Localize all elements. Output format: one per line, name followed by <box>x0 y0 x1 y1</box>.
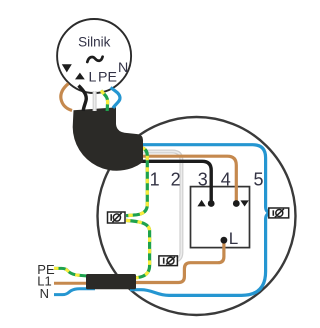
supply cable sheath <box>86 274 136 289</box>
motor wire black <box>79 86 87 112</box>
svg-text:N: N <box>40 286 49 301</box>
conduit elbow <box>73 107 143 170</box>
svg-text:1: 1 <box>150 170 160 190</box>
wire L1 supply stub <box>54 282 95 285</box>
switch arrow up <box>197 200 205 207</box>
switch terminal dot 4 <box>233 200 240 207</box>
motor wire PE green-yellow <box>101 91 108 112</box>
connector (end cap) gray bottom <box>159 256 178 266</box>
wire 4 brown (to switch terminal 4) <box>140 156 236 203</box>
connector (splice) N right <box>269 208 289 218</box>
switch terminal dot L <box>221 237 228 244</box>
wire 2 gray (unused, to end cap) <box>140 152 181 261</box>
motor circle M1 <box>57 19 131 93</box>
svg-text:2: 2 <box>171 170 181 190</box>
junction box circle <box>98 117 296 315</box>
svg-text:3: 3 <box>198 170 208 190</box>
wire PE green-yellow (motor PE down to connector) <box>126 147 147 215</box>
motor wire brown <box>61 84 72 111</box>
motor arrow up <box>75 73 85 80</box>
svg-text:PE: PE <box>98 69 117 85</box>
wire 3 black (to switch terminal 3) <box>140 161 211 203</box>
wire N supply stub <box>54 289 95 295</box>
motor tilde (AC symbol) <box>87 57 102 62</box>
wire PE supply stub <box>54 268 92 276</box>
switch box U1 <box>191 187 250 248</box>
svg-text:L: L <box>229 229 238 248</box>
terminal numbers 1-5 <box>150 170 264 190</box>
motor wire gray <box>93 91 97 111</box>
connector (splice) PE left <box>108 212 126 223</box>
switch arrow down <box>240 200 248 206</box>
svg-text:L: L <box>89 69 97 85</box>
svg-text:N: N <box>118 60 128 76</box>
svg-text:4: 4 <box>221 170 231 190</box>
wire 5 N blue (motor N to supply N splice) <box>130 145 269 296</box>
motor wire blue <box>111 88 121 109</box>
svg-text:5: 5 <box>253 170 263 190</box>
switch terminal dot 3 <box>208 200 215 207</box>
wire L1 brown (supply live to switch L) <box>95 240 224 283</box>
motor arrow down <box>62 64 72 72</box>
wire PE green-yellow (connector down to supply cable) <box>126 220 150 278</box>
svg-text:Silnik: Silnik <box>78 35 111 50</box>
